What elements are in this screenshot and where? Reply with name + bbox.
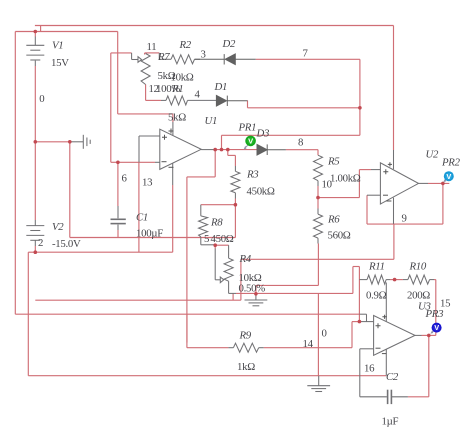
svg-text:11: 11 bbox=[147, 41, 157, 53]
svg-text:4: 4 bbox=[195, 89, 201, 101]
svg-text:V: V bbox=[434, 323, 439, 332]
svg-text:R3: R3 bbox=[246, 169, 259, 181]
svg-text:3: 3 bbox=[201, 49, 206, 61]
svg-text:450Ω: 450Ω bbox=[211, 233, 234, 245]
svg-text:U2: U2 bbox=[426, 149, 439, 161]
svg-text:1µF: 1µF bbox=[382, 416, 399, 428]
svg-text:13: 13 bbox=[142, 177, 152, 189]
svg-text:0.9Ω: 0.9Ω bbox=[366, 290, 387, 302]
svg-text:8: 8 bbox=[298, 137, 303, 149]
svg-text:V1: V1 bbox=[52, 40, 63, 52]
svg-text:10: 10 bbox=[322, 179, 332, 191]
svg-text:R5: R5 bbox=[327, 156, 340, 168]
svg-text:16: 16 bbox=[364, 363, 375, 375]
svg-text:PR2: PR2 bbox=[441, 157, 461, 169]
svg-text:14: 14 bbox=[303, 338, 314, 350]
svg-text:R11: R11 bbox=[368, 261, 385, 273]
svg-text:C2: C2 bbox=[386, 371, 399, 383]
svg-text:1kΩ: 1kΩ bbox=[237, 361, 255, 373]
svg-text:5: 5 bbox=[204, 233, 209, 245]
svg-text:D3: D3 bbox=[256, 128, 270, 140]
svg-text:15V: 15V bbox=[51, 57, 69, 69]
svg-text:1.00kΩ: 1.00kΩ bbox=[330, 173, 361, 185]
svg-text:R7: R7 bbox=[157, 51, 170, 63]
svg-text:V: V bbox=[446, 172, 451, 181]
svg-text:PR1: PR1 bbox=[238, 122, 257, 134]
svg-text:PR3: PR3 bbox=[425, 308, 445, 320]
svg-text:R4: R4 bbox=[239, 253, 252, 265]
svg-text:6: 6 bbox=[122, 173, 128, 185]
svg-text:C1: C1 bbox=[136, 212, 148, 224]
svg-text:0: 0 bbox=[39, 93, 44, 105]
svg-text:R6: R6 bbox=[327, 214, 340, 226]
svg-text:R2: R2 bbox=[179, 39, 192, 51]
svg-text:D1: D1 bbox=[214, 81, 228, 93]
svg-text:R10: R10 bbox=[409, 261, 427, 273]
svg-text:V2: V2 bbox=[52, 221, 64, 233]
svg-text:R9: R9 bbox=[239, 330, 252, 342]
svg-text:0.50%: 0.50% bbox=[239, 283, 266, 295]
svg-text:2: 2 bbox=[38, 237, 43, 249]
svg-text:9: 9 bbox=[402, 213, 407, 225]
svg-text:10kΩ: 10kΩ bbox=[171, 72, 194, 84]
svg-text:D2: D2 bbox=[222, 38, 236, 50]
svg-text:560Ω: 560Ω bbox=[328, 230, 351, 242]
svg-text:5kΩ: 5kΩ bbox=[168, 112, 186, 124]
svg-text:U1: U1 bbox=[205, 115, 218, 127]
svg-text:0: 0 bbox=[322, 328, 327, 340]
svg-text:7: 7 bbox=[303, 48, 309, 60]
svg-text:R8: R8 bbox=[210, 217, 223, 229]
svg-text:-15.0V: -15.0V bbox=[52, 238, 81, 250]
svg-text:100µF: 100µF bbox=[136, 228, 163, 240]
svg-text:450kΩ: 450kΩ bbox=[247, 186, 275, 198]
svg-text:R1: R1 bbox=[171, 83, 183, 95]
